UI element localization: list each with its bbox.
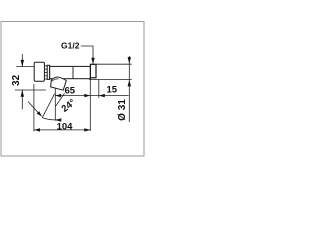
svg-text:Ø 31: Ø 31 xyxy=(117,99,128,121)
svg-text:32: 32 xyxy=(11,74,22,86)
svg-text:15: 15 xyxy=(107,84,118,95)
svg-text:104: 104 xyxy=(57,122,74,133)
svg-text:G1/2: G1/2 xyxy=(61,41,80,51)
svg-text:65: 65 xyxy=(65,85,76,96)
